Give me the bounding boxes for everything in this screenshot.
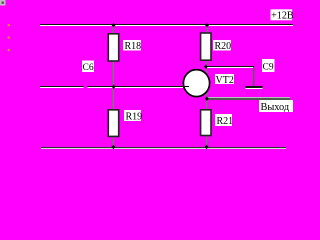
wire: input line left of C6 [40, 86, 84, 88]
node: emitter / output junction [205, 96, 209, 100]
transistor VT2 body [183, 70, 209, 97]
bullet dot 2 [8, 36, 10, 38]
label R20 [213, 40, 231, 52]
node: top rail / R18 junction [112, 23, 116, 27]
label R19 [124, 110, 142, 122]
svg-text:С6: С6 [83, 63, 94, 73]
node: R21 / ground junction [205, 145, 209, 149]
wire: R20 bottom to collector node [206, 61, 208, 73]
svg-text:R18: R18 [125, 41, 142, 52]
svg-text:C9: C9 [263, 63, 274, 73]
node: R19 / ground junction [111, 145, 115, 149]
selection handle top-left [0, 0, 6, 6]
resistor R19 [108, 110, 118, 137]
wire: +12V top rail [40, 24, 293, 26]
svg-text:R21: R21 [217, 116, 234, 127]
wire: vertical R18 column top stub [112, 25, 114, 34]
resistor R18 [108, 34, 118, 61]
svg-text:R20: R20 [215, 41, 232, 52]
bullet dot 1 [8, 24, 10, 26]
capacitor C6 (gap) and wire: base line from C6 to VT2 [88, 86, 184, 88]
svg-text:VT2: VT2 [216, 75, 234, 86]
label C9 [262, 59, 275, 73]
node: base divider junction [112, 84, 116, 88]
wire: base poking into VT2 [184, 86, 190, 87]
wire: R19 bottom to ground rail [112, 137, 114, 147]
wire: R21 bottom to ground rail [206, 136, 208, 147]
wire: C9 vertical stub [253, 67, 255, 86]
label R21 [215, 114, 233, 127]
node: top rail / R20 junction [205, 23, 209, 27]
svg-text:Выход: Выход [261, 102, 290, 113]
label +12V [271, 9, 294, 21]
wire: ground bottom rail [41, 147, 286, 149]
bullet dot 3 [8, 49, 10, 51]
wire: vertical R20 column top stub [206, 25, 208, 33]
label VT2 [215, 74, 234, 86]
resistor R20 [201, 33, 211, 60]
wire: base line to R19 top [112, 87, 114, 109]
svg-text:R19: R19 [126, 111, 143, 122]
label Vyhod (output) [259, 100, 293, 113]
label R18 [123, 40, 141, 52]
wire: R18 bottom to base line [112, 61, 114, 87]
wire: emitter node down to R21 top [206, 90, 208, 109]
node: collector / C9 branch junction [204, 64, 208, 68]
svg-text:+12В: +12В [271, 11, 293, 22]
wire: collector branch to C9 [206, 66, 254, 68]
resistor R21 [201, 110, 211, 136]
label C6 [82, 61, 94, 74]
wire: output line to Vyhod [207, 97, 290, 100]
capacitor C9 top plate [246, 86, 263, 89]
